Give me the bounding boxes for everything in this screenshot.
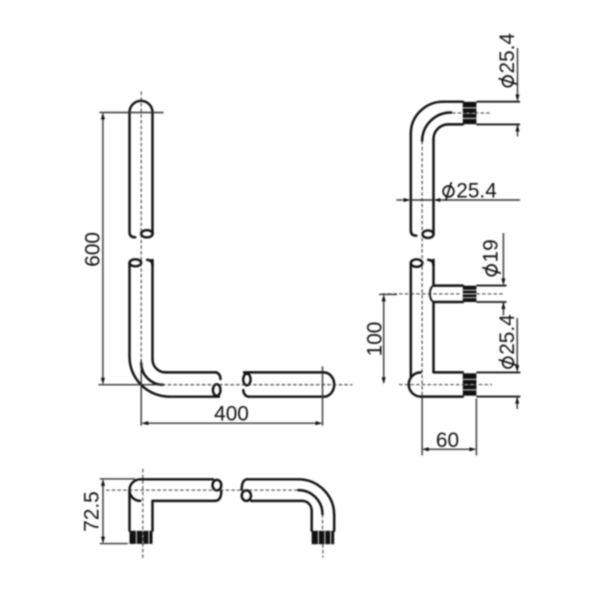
- svg-text:25.4: 25.4: [496, 314, 519, 354]
- svg-text:72.5: 72.5: [81, 491, 104, 531]
- svg-text:19: 19: [480, 239, 503, 262]
- svg-text:25.4: 25.4: [456, 179, 496, 202]
- svg-text:400: 400: [214, 403, 249, 426]
- svg-text:25.4: 25.4: [496, 33, 519, 73]
- svg-text:100: 100: [364, 322, 387, 357]
- svg-text:600: 600: [82, 232, 105, 267]
- svg-text:60: 60: [436, 429, 459, 452]
